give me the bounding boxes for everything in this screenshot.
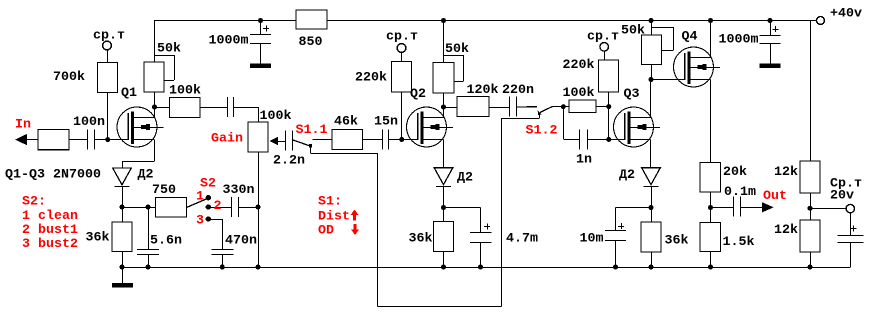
svg-text:1 clean: 1 clean <box>22 209 78 224</box>
svg-text:2: 2 <box>214 199 222 214</box>
svg-text:330n: 330n <box>223 183 255 198</box>
svg-text:1n: 1n <box>576 153 592 168</box>
svg-text:Q3: Q3 <box>624 87 640 102</box>
svg-text:Q4: Q4 <box>682 30 698 45</box>
svg-text:700k: 700k <box>53 70 85 85</box>
svg-text:ср.т: ср.т <box>587 29 619 44</box>
svg-text:4.7m: 4.7m <box>506 232 538 247</box>
svg-text:1.5k: 1.5k <box>723 235 755 250</box>
svg-text:Д2: Д2 <box>619 168 635 183</box>
svg-text:220k: 220k <box>563 58 595 73</box>
svg-text:50k: 50k <box>157 42 181 57</box>
svg-text:Д2: Д2 <box>138 168 154 183</box>
svg-text:100k: 100k <box>260 109 292 124</box>
svg-text:S1:: S1: <box>318 195 342 210</box>
svg-text:+40v: +40v <box>830 7 862 22</box>
svg-text:2.2n: 2.2n <box>273 154 305 169</box>
svg-text:2 bust1: 2 bust1 <box>22 223 78 238</box>
svg-text:Gain: Gain <box>211 132 243 147</box>
svg-text:100k: 100k <box>169 84 201 99</box>
svg-text:S2:: S2: <box>22 195 46 210</box>
svg-text:50k: 50k <box>621 24 645 39</box>
svg-text:20k: 20k <box>723 165 747 180</box>
svg-text:1000m: 1000m <box>719 33 759 48</box>
svg-text:0.1m: 0.1m <box>724 185 756 200</box>
svg-text:In: In <box>15 118 31 133</box>
svg-text:3 bust2: 3 bust2 <box>22 237 78 252</box>
svg-text:470n: 470n <box>225 234 257 249</box>
svg-text:5.6n: 5.6n <box>150 234 182 249</box>
svg-text:100n: 100n <box>73 115 105 130</box>
svg-text:OD: OD <box>318 224 334 239</box>
svg-text:36k: 36k <box>86 231 110 246</box>
svg-text:Q2: Q2 <box>410 87 426 102</box>
svg-text:50k: 50k <box>445 42 469 57</box>
svg-text:850: 850 <box>299 35 323 50</box>
svg-text:Q1: Q1 <box>121 86 137 101</box>
svg-text:1: 1 <box>196 190 204 205</box>
svg-text:10m: 10m <box>580 232 604 247</box>
svg-text:220k: 220k <box>355 71 387 86</box>
svg-text:ср.т: ср.т <box>386 29 418 44</box>
svg-text:36k: 36k <box>409 232 433 247</box>
svg-text:Out: Out <box>763 189 787 204</box>
svg-text:12k: 12k <box>774 223 798 238</box>
svg-text:S1.2: S1.2 <box>526 124 558 139</box>
svg-text:Д2: Д2 <box>457 171 473 186</box>
svg-text:ср.т: ср.т <box>93 29 125 44</box>
svg-text:100k: 100k <box>563 86 595 101</box>
svg-text:20v: 20v <box>830 189 854 204</box>
svg-text:1000m: 1000m <box>209 34 249 49</box>
svg-text:15n: 15n <box>374 115 398 130</box>
svg-text:750: 750 <box>152 183 176 198</box>
svg-text:36k: 36k <box>665 234 689 249</box>
svg-text:12k: 12k <box>774 165 798 180</box>
svg-text:46k: 46k <box>334 115 358 130</box>
svg-text:Q1-Q3 2N7000: Q1-Q3 2N7000 <box>5 168 101 183</box>
svg-text:220n: 220n <box>502 83 534 98</box>
svg-text:Dist: Dist <box>318 210 350 225</box>
svg-text:S1.1: S1.1 <box>296 123 328 138</box>
svg-text:3: 3 <box>196 214 204 229</box>
svg-text:120k: 120k <box>467 83 499 98</box>
